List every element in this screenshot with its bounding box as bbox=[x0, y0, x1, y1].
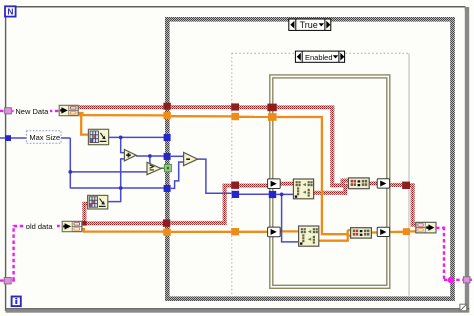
wire: orange stub to swap2 top input bbox=[348, 229, 351, 231]
node: add function bbox=[124, 150, 136, 161]
IPES border node left top (index in) bbox=[268, 179, 281, 189]
wire: blue subtract output down bbox=[197, 159, 232, 193]
node: swap values 1 bbox=[348, 178, 369, 189]
case structure border right bbox=[450, 17, 455, 301]
wire: red hatched disable border to olive tunnel bbox=[239, 105, 268, 109]
tunnel: dark red output bbox=[402, 182, 410, 189]
tunnel: blue add result bbox=[164, 153, 171, 160]
node: blue junction inside IPES bbox=[280, 193, 284, 197]
wire: red hatched node1 output to swap1 bbox=[313, 191, 347, 195]
wire: blue to greater-equal lower input bbox=[70, 171, 147, 173]
tunnel: blue on olive border bbox=[269, 191, 276, 198]
wire: orange node2 output bbox=[319, 240, 349, 242]
wire: red hatched inside IPES horizontal bbox=[277, 105, 335, 109]
svg-text:Enabled: Enabled bbox=[305, 53, 333, 62]
tunnel: blue index bbox=[164, 185, 171, 192]
tunnel: orange bbox=[231, 113, 239, 120]
node: array size 2 bbox=[88, 195, 108, 209]
tunnel: blue Max Size on loop border bbox=[5, 135, 11, 141]
wire: blue add bottom input riser bbox=[108, 159, 125, 202]
disable structure left border (dotted) bbox=[231, 53, 233, 296]
node: replace array subset 1 bbox=[293, 179, 313, 199]
wire: blue add output to case tunnel bbox=[136, 155, 164, 157]
i terminal (iteration) bbox=[12, 297, 21, 307]
resize handle diagonal bbox=[460, 304, 466, 310]
wire: blue lower horizontal to junction bbox=[70, 187, 121, 189]
wire: orange swap2 output to border node bbox=[371, 231, 378, 233]
wire: red hatched after tunnel down to bundle bbox=[410, 183, 415, 187]
wire: red hatched old data riser to array size 2 bbox=[82, 204, 86, 224]
wire: orange inside case lower bbox=[171, 231, 232, 233]
disable selector label "Enabled" bbox=[295, 51, 344, 62]
node: bundle (right) bbox=[416, 222, 436, 233]
node: blue junction 4-way bbox=[119, 186, 123, 190]
tunnel: magenta old data on loop border bbox=[4, 278, 11, 284]
wire: blue Max Size vertical bbox=[69, 138, 71, 189]
wire: blue branch down to add top input bbox=[121, 137, 125, 152]
node: replace array subset 2 bbox=[299, 226, 319, 246]
svg-text:old data: old data bbox=[26, 222, 54, 231]
node: array size 1 bbox=[88, 129, 108, 144]
wire: orange dotted border to IPES node lower bbox=[239, 231, 268, 233]
case structure border left bbox=[165, 17, 170, 301]
wire: red hatched vertical rise inside case bbox=[223, 184, 227, 225]
node: magenta junction dot on case border bbox=[448, 277, 455, 284]
tunnel: dark red lower bbox=[231, 182, 239, 189]
wire: orange stub to swap2 bottom input bbox=[348, 234, 351, 236]
node: unbundle A (New Data) bbox=[59, 105, 78, 115]
wire: magenta old data from left edge bbox=[0, 279, 15, 281]
svg-text:N: N bbox=[7, 6, 13, 16]
wire: blue branch down to node2 bbox=[282, 194, 299, 242]
tunnel: orange output bbox=[403, 228, 410, 235]
case structure border bottom bbox=[165, 296, 455, 301]
tunnel: orange on olive border bbox=[268, 113, 277, 121]
wire: magenta bundle output going right bbox=[436, 227, 445, 229]
wire: blue dotted tunnel to olive tunnel bbox=[239, 193, 269, 195]
wire: orange border node to dotted tunnel bbox=[389, 231, 403, 233]
for-loop right border corner bevel bbox=[465, 7, 469, 12]
svg-text:Max Size: Max Size bbox=[29, 133, 60, 142]
tunnel: orange lower bbox=[231, 228, 239, 235]
wire: red hatched old data inside case bbox=[171, 221, 227, 225]
wire: magenta New Data from left edge bbox=[0, 110, 59, 112]
node: greater-or-equal function bbox=[147, 162, 161, 174]
wire: orange swap2 input column bbox=[347, 230, 349, 241]
wire: green comparison result to selector bbox=[160, 167, 164, 169]
for-loop bottom border dark inner line bbox=[6, 308, 470, 310]
wire: orange node A down to array size 1 bbox=[78, 113, 88, 134]
wire: orange IPES border node to node2 bbox=[280, 230, 299, 232]
for-loop right border (thick) bbox=[465, 7, 469, 312]
wire: red hatched border node to dotted tunnel bbox=[389, 183, 402, 187]
wire: orange node A to case border bbox=[81, 114, 164, 117]
wire: blue olive tunnel to node1 bbox=[276, 193, 293, 195]
for-loop left border bbox=[5, 6, 7, 311]
wire: blue Max Size from left edge bbox=[0, 137, 27, 139]
node: blue junction at array size 1 output bbox=[119, 136, 123, 140]
disable structure right border bbox=[408, 53, 410, 296]
tunnel: orange old data bbox=[163, 229, 171, 236]
for-loop bottom border (thick) bbox=[6, 309, 470, 313]
case structure border top bbox=[165, 17, 455, 22]
N terminal (loop count) bbox=[5, 6, 16, 16]
node: swap values 2 bbox=[351, 228, 372, 238]
tunnel: blue lower bbox=[232, 191, 239, 198]
node: blue junction add output bbox=[148, 154, 152, 158]
svg-text:New Data: New Data bbox=[15, 107, 49, 116]
node: blue junction max size split bbox=[68, 170, 72, 174]
wire: magenta bundle output vertical down bbox=[443, 227, 445, 280]
label: New Data bbox=[14, 106, 50, 116]
node: dark red junction at node B output bbox=[82, 221, 87, 226]
svg-text:True: True bbox=[300, 20, 318, 30]
wire: blue junction to case tunnel y188 bbox=[121, 187, 164, 189]
IPES border node right bottom (element out) bbox=[377, 227, 389, 236]
wire: orange node B to case border bbox=[82, 229, 164, 232]
tunnel: orange new data bbox=[163, 112, 170, 119]
wire: red hatched dotted tunnel to IPES node bbox=[239, 184, 268, 188]
wire: red hatched inside case to disable border bbox=[171, 105, 232, 109]
wire: blue case tunnel jog up to subtract bottom input bbox=[171, 162, 184, 188]
wire: red hatched IPES border node to node1 bbox=[280, 182, 293, 186]
wire: red hatched swap1 output to border node bbox=[369, 181, 377, 185]
tunnel: dark red bbox=[231, 103, 239, 110]
IPES outer frame bbox=[270, 75, 390, 288]
node: unbundle B (old data) bbox=[62, 221, 82, 231]
wire: orange inside IPES long drop bbox=[277, 117, 348, 234]
wire: blue Max Size after label bbox=[61, 137, 71, 139]
tunnel: dark red old data bbox=[163, 219, 170, 226]
tunnel: blue array size bbox=[164, 134, 171, 141]
wire: magenta old data vertical riser bbox=[12, 225, 14, 281]
wire: red hatched to dotted border tunnel bbox=[223, 184, 232, 188]
tunnel: magenta output on right loop border bbox=[463, 277, 470, 283]
label: old data bbox=[24, 221, 57, 231]
node: orange junction below node A bbox=[79, 112, 84, 117]
tunnel: magenta New Data on loop border bbox=[5, 108, 12, 114]
IPES border node right top (element out) bbox=[377, 179, 389, 188]
wire: magenta old data horizontal to node bbox=[14, 225, 63, 227]
disable structure top border (dotted) bbox=[232, 52, 409, 54]
IPES border node left bottom (index in) bbox=[268, 227, 281, 237]
tunnel: dark red new data bbox=[163, 103, 170, 110]
wire: magenta to right edge bbox=[444, 279, 474, 281]
IPES inner frame bbox=[273, 78, 387, 285]
tunnel: dark red on olive border bbox=[267, 104, 276, 112]
wire: orange tunnel to bundle node bbox=[410, 230, 416, 232]
resize handle corner bbox=[460, 304, 467, 311]
wire: blue branch down into greater-equal bbox=[149, 156, 151, 165]
wire: blue array size 1 output bbox=[109, 136, 164, 138]
wire: orange inside case to dotted border bbox=[171, 115, 232, 118]
label: Max Size (free label with dashed border) bbox=[26, 131, 61, 144]
wire: red hatched New Data array, node A to case border bbox=[78, 105, 164, 109]
case selector label "True" bbox=[289, 19, 331, 30]
wire: blue case tunnel to subtract top input bbox=[171, 155, 184, 157]
wire: red hatched vertical drop inside IPES bbox=[330, 107, 334, 187]
wire: red hatched jog to swap1 bbox=[330, 183, 343, 187]
for-loop top border bbox=[5, 6, 466, 8]
wire: orange dotted border to olive tunnel bbox=[239, 116, 268, 118]
wire: red hatched old data node B to case border bbox=[82, 221, 163, 225]
node: subtract function bbox=[184, 153, 198, 166]
tunnel: case selector terminal bbox=[164, 164, 171, 171]
